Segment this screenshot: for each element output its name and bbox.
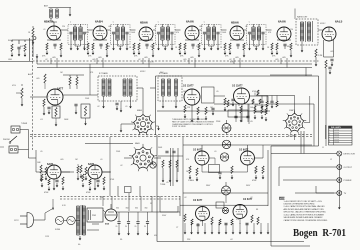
svg-text:.005: .005	[230, 104, 234, 106]
svg-text:.005: .005	[108, 26, 112, 28]
svg-text:6AU6: 6AU6	[186, 20, 194, 24]
svg-text:270: 270	[236, 219, 239, 221]
svg-text:100K: 100K	[64, 119, 69, 121]
svg-text:PHONO: PHONO	[3, 139, 10, 141]
svg-text:POINT OF VIEW: POINT OF VIEW	[172, 126, 186, 128]
svg-text:2. ALL CAPACITORS WITH DECIMAL: 2. ALL CAPACITORS WITH DECIMAL VALUES	[284, 205, 326, 208]
svg-text:300Ω: 300Ω	[8, 39, 13, 42]
svg-text:3: 3	[329, 135, 330, 137]
svg-text:.01: .01	[46, 96, 49, 98]
svg-text:10M: 10M	[37, 162, 41, 164]
svg-text:3. ALL CAPACITORS WITH WHOLE N: 3. ALL CAPACITORS WITH WHOLE NUMBER	[284, 213, 325, 216]
svg-text:20: 20	[135, 226, 137, 228]
svg-text:220K: 220K	[216, 121, 221, 123]
svg-text:20: 20	[144, 226, 146, 228]
svg-text:.005: .005	[60, 159, 64, 161]
svg-text:OUTPUT: OUTPUT	[344, 167, 353, 169]
svg-text:6AU6: 6AU6	[278, 20, 286, 24]
svg-text:.005: .005	[183, 59, 187, 61]
svg-text:.02: .02	[138, 59, 141, 61]
svg-text:RATIO DET: RATIO DET	[297, 16, 308, 19]
svg-text:.05: .05	[216, 91, 219, 93]
svg-text:6AL5: 6AL5	[335, 20, 343, 24]
svg-text:350: 350	[126, 208, 129, 210]
svg-text:.01: .01	[154, 26, 157, 28]
svg-text:.01: .01	[214, 151, 217, 153]
svg-text:.02: .02	[120, 165, 123, 167]
svg-text:FUSE: FUSE	[55, 229, 61, 231]
svg-text:BOT VIEW: BOT VIEW	[288, 136, 297, 138]
svg-text:455KC: 455KC	[140, 71, 146, 73]
svg-text:.05: .05	[166, 182, 169, 184]
svg-text:2.2M: 2.2M	[318, 55, 323, 57]
svg-text:UNLESS OTHERWISE SPECIFIED.: UNLESS OTHERWISE SPECIFIED.	[284, 204, 316, 206]
svg-text:270: 270	[200, 221, 203, 223]
svg-text:.01: .01	[245, 26, 248, 28]
svg-text:1. ALL RESISTORS TO BE 1/2 WAT: 1. ALL RESISTORS TO BE 1/2 WATT ± 10%	[284, 200, 323, 203]
svg-text:5: 5	[329, 139, 330, 141]
svg-text:1/2 12AT7: 1/2 12AT7	[232, 85, 243, 88]
svg-text:WHOLE NO. VALUES OTHERWISE SPE: WHOLE NO. VALUES OTHERWISE SPECIFIED.	[284, 211, 327, 214]
svg-text:J2: J2	[330, 159, 332, 161]
svg-text:VALUES ARE IN MMFD AND ARE CER: VALUES ARE IN MMFD AND ARE CERAMIC	[284, 216, 324, 219]
svg-text:1/2 6AT7: 1/2 6AT7	[193, 199, 203, 202]
svg-text:.02: .02	[230, 239, 233, 241]
svg-text:AGC: AGC	[28, 73, 33, 76]
svg-text:6AT7: 6AT7	[57, 87, 64, 91]
svg-text:.05: .05	[40, 151, 43, 153]
svg-text:GND: GND	[8, 59, 13, 61]
svg-text:.005: .005	[275, 59, 279, 61]
svg-text:450: 450	[154, 235, 157, 237]
svg-text:1/2 6AT7: 1/2 6AT7	[193, 149, 203, 152]
svg-text:.005: .005	[235, 57, 239, 59]
svg-text:2: 2	[329, 132, 330, 134]
svg-text:NOTE: NOTE	[279, 198, 285, 200]
svg-text:.02: .02	[184, 197, 187, 199]
svg-text:6BA6: 6BA6	[140, 21, 148, 25]
svg-text:350: 350	[116, 208, 119, 210]
svg-text:.005: .005	[144, 57, 148, 59]
svg-text:.005: .005	[52, 57, 56, 59]
svg-text:120: 120	[290, 29, 293, 31]
svg-text:6: 6	[329, 142, 330, 144]
svg-text:.01: .01	[40, 119, 43, 121]
svg-text:.005: .005	[92, 59, 96, 61]
svg-text:.01: .01	[125, 106, 128, 108]
svg-text:SW: SW	[100, 197, 103, 199]
svg-text:.005: .005	[330, 51, 334, 53]
svg-text:POWER: POWER	[344, 180, 352, 182]
svg-text:6AV6: 6AV6	[47, 163, 54, 166]
svg-text:350: 350	[135, 208, 138, 210]
svg-text:.005: .005	[190, 57, 194, 59]
svg-text:.01: .01	[43, 29, 46, 31]
svg-text:6BA6: 6BA6	[231, 21, 239, 25]
svg-text:R-701: R-701	[335, 142, 340, 144]
svg-text:Bogen R-701: Bogen R-701	[293, 228, 346, 239]
svg-text:455KC: 455KC	[320, 23, 326, 25]
svg-text:117V: 117V	[14, 220, 19, 222]
svg-text:6AV6: 6AV6	[88, 163, 95, 166]
svg-text:1: 1	[329, 130, 330, 132]
svg-text:470K: 470K	[44, 192, 49, 194]
svg-text:TUNER: TUNER	[21, 123, 28, 125]
svg-text:ARE IN MFD AND ARE PAPER CAPAC: ARE IN MFD AND ARE PAPER CAPACITORS.	[284, 208, 325, 211]
svg-text:.005: .005	[282, 57, 286, 59]
svg-text:220: 220	[62, 26, 65, 28]
svg-text:60~: 60~	[78, 244, 81, 246]
svg-text:.01: .01	[100, 159, 103, 161]
svg-text:.02: .02	[250, 197, 253, 199]
svg-text:J1: J1	[322, 147, 324, 149]
svg-text:350: 350	[145, 208, 148, 210]
svg-text:1 MEG: 1 MEG	[188, 180, 194, 182]
svg-text:6AB4: 6AB4	[95, 20, 103, 24]
svg-text:.005: .005	[199, 26, 203, 28]
svg-text:6BK7A: 6BK7A	[44, 20, 55, 24]
svg-text:20: 20	[125, 226, 127, 228]
svg-text:4: 4	[329, 137, 330, 139]
svg-text:DETECTOR: DETECTOR	[344, 154, 356, 156]
svg-text:FIL: FIL	[120, 239, 123, 241]
svg-text:IF TRANS: IF TRANS	[99, 72, 108, 75]
svg-text:.02: .02	[97, 106, 100, 108]
svg-text:20: 20	[116, 226, 118, 228]
svg-text:CAPACITORS UNLESS OTHERWISE SP: CAPACITORS UNLESS OTHERWISE SPECIFIED.	[284, 219, 329, 222]
svg-text:.05: .05	[250, 121, 253, 123]
svg-text:470K: 470K	[86, 192, 91, 194]
svg-text:470: 470	[176, 32, 179, 34]
svg-text:.005: .005	[36, 78, 40, 80]
svg-text:TONE: TONE	[160, 184, 166, 186]
svg-text:470K: 470K	[252, 180, 257, 182]
svg-text:.02: .02	[45, 59, 48, 61]
svg-text:.005: .005	[98, 57, 102, 59]
svg-text:1/2 12AT7: 1/2 12AT7	[183, 85, 194, 88]
